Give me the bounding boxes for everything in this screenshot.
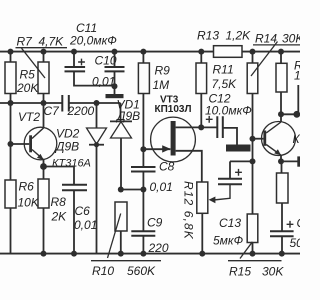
junction: rail / C11 xyxy=(71,49,77,55)
svg-text:C10: C10 xyxy=(95,54,117,68)
wire: R11 top lead xyxy=(200,52,202,63)
wire: VT3 drain lead xyxy=(176,126,202,128)
wire: VD1 anode down to R10 node xyxy=(120,138,122,190)
svg-text:КТ316А: КТ316А xyxy=(52,158,91,170)
wire: C12 to chassis bar xyxy=(223,128,237,145)
plus sign C12 xyxy=(206,116,213,123)
transistor VT2 KT316A xyxy=(11,127,57,160)
svg-text:R11: R11 xyxy=(213,63,234,77)
svg-text:2K: 2K xyxy=(51,210,68,224)
wire: R17 bottom lead xyxy=(281,203,283,231)
wire: R11 bottom lead xyxy=(200,94,202,128)
wire: VT3 source to R12 xyxy=(176,151,202,182)
wire: R12 wiper to C13 with arrow xyxy=(209,184,230,203)
capacitor C14 (electrolytic) xyxy=(270,231,294,236)
junction: R15 / common rail xyxy=(250,251,256,257)
svg-text:0,01: 0,01 xyxy=(150,180,173,194)
wire: emitter node to C6 xyxy=(44,166,75,168)
junction: rail / R14 xyxy=(250,49,256,55)
wire: drain to C12 xyxy=(201,126,217,128)
plus sign C14 xyxy=(287,221,294,228)
junction: collector node xyxy=(278,111,284,117)
wire: C14 bottom lead xyxy=(281,236,283,253)
wire: C8 bottom lead xyxy=(142,172,144,190)
resistor R5 xyxy=(5,62,16,94)
ground: chassis bar fragment at right edge xyxy=(297,156,300,166)
wire: R12 bottom lead xyxy=(201,213,203,253)
svg-text:50: 50 xyxy=(290,236,301,250)
plus sign C13 xyxy=(235,169,242,176)
svg-text:R7: R7 xyxy=(17,35,34,49)
wire: R7 bottom lead xyxy=(43,94,45,104)
junction: rail / R16 xyxy=(278,49,284,55)
wire: C9 top lead xyxy=(142,190,144,232)
junction: C10 / C11 node xyxy=(112,83,118,89)
junction: emitter node xyxy=(278,158,284,164)
svg-text:C8: C8 xyxy=(159,160,175,174)
diode VD2 D9V xyxy=(87,128,107,145)
wire: C13 top lead xyxy=(229,161,231,178)
wire: C6 bottom lead xyxy=(73,190,75,253)
junction: VT4 base tap xyxy=(250,136,256,142)
resistor R17 xyxy=(277,173,289,203)
wire: left vertical to VT2 base node xyxy=(10,103,12,144)
ground: chassis bar under C10 xyxy=(106,94,124,98)
wire: stub to chassis bar xyxy=(114,86,116,94)
svg-text:R5: R5 xyxy=(20,68,36,82)
junction: C13 tap xyxy=(250,158,256,164)
svg-text:15: 15 xyxy=(294,69,300,83)
wire: C13 to R14/R15 line xyxy=(230,160,253,162)
resistor R13 (in series with rail) xyxy=(214,46,243,58)
wire: C10 top lead xyxy=(114,52,116,67)
svg-text:R15: R15 xyxy=(229,265,251,279)
junction: R8 / common rail xyxy=(41,251,47,257)
svg-text:R14: R14 xyxy=(255,32,277,46)
junction: R10 / common rail xyxy=(118,251,124,257)
junction: R12 / common rail xyxy=(199,251,205,257)
resistor R6 xyxy=(5,180,16,208)
wire: VT4 collector lead xyxy=(280,114,282,122)
resistor R7 (trimmer) xyxy=(38,62,49,94)
svg-text:КП103Л: КП103Л xyxy=(155,104,192,115)
svg-text:20K: 20K xyxy=(16,81,39,95)
wire: R5 top lead xyxy=(10,52,12,62)
wire: top supply rail (right segment) xyxy=(242,51,300,53)
svg-text:4,7K: 4,7K xyxy=(39,35,65,49)
wire: R5 bottom lead xyxy=(10,94,12,104)
label R15 30K (overlined trimmer label) xyxy=(228,261,284,279)
junction: rail / R5 xyxy=(8,49,14,55)
svg-text:7,5K: 7,5K xyxy=(212,77,238,91)
svg-text:R6: R6 xyxy=(19,180,35,194)
junction: input line / diodes xyxy=(94,100,100,106)
svg-text:R13: R13 xyxy=(197,29,219,43)
capacitor C9 xyxy=(131,231,155,235)
wire: R9 top lead xyxy=(142,52,144,63)
wire: R16 top lead xyxy=(280,52,282,64)
wire: VT4 emitter lead xyxy=(280,155,282,161)
wire: C6 top lead xyxy=(73,167,75,185)
capacitor C13 (electrolytic) xyxy=(218,179,242,185)
svg-text:560K: 560K xyxy=(127,264,156,278)
wire: R10 trimmer pointer line xyxy=(108,214,121,259)
plus sign C11 xyxy=(78,59,85,66)
junction: C9 / common rail xyxy=(140,251,146,257)
resistor R11 xyxy=(196,63,207,94)
wire: collector node to right edge xyxy=(281,113,300,115)
wire: gate lead to VT3 xyxy=(143,148,170,150)
transistor VT4 xyxy=(253,122,296,156)
resistor R12 (trimmer) xyxy=(197,182,208,213)
junction: C6 / common rail xyxy=(71,251,77,257)
svg-text:10K: 10K xyxy=(18,196,40,210)
svg-text:R10: R10 xyxy=(92,264,114,278)
wire: VT2 emitter lead xyxy=(43,160,45,167)
svg-text:VD2: VD2 xyxy=(56,127,80,141)
diode VD1 D9V xyxy=(110,121,132,138)
wire: down to R6 xyxy=(10,144,12,180)
wire: R10 to C9 node xyxy=(121,189,144,191)
svg-text:1,2K: 1,2K xyxy=(226,29,252,43)
resistor R15 (trimmer) xyxy=(247,214,258,243)
junction: drain node xyxy=(198,124,204,130)
wire: R16 bottom lead xyxy=(280,92,282,114)
wire: R15 bottom lead xyxy=(252,243,254,254)
junction: VD2 cathode xyxy=(94,142,99,147)
svg-text:1M: 1M xyxy=(153,78,170,92)
resistor R16 xyxy=(276,63,287,92)
svg-text:30K: 30K xyxy=(282,32,300,46)
capacitor C7 xyxy=(62,95,69,112)
wire: input line y103 (right of C7) xyxy=(69,102,121,104)
wire: VD2 cathode to common rail xyxy=(96,145,98,254)
svg-text:C13: C13 xyxy=(219,216,241,230)
wire: R7 trimmer pointer line xyxy=(22,48,46,78)
junction: C8 / C9 node xyxy=(140,187,146,193)
capacitor C10 xyxy=(105,67,125,71)
capacitor C8 xyxy=(131,167,156,172)
wire: down to VD2 xyxy=(96,103,98,128)
svg-text:Д9В: Д9В xyxy=(115,109,140,123)
junction: right edge tap xyxy=(293,111,300,118)
wire: bottom common rail xyxy=(0,253,300,255)
capacitor C12 (electrolytic) xyxy=(217,116,223,138)
junction: rail / R9 xyxy=(140,49,146,55)
resistor R9 xyxy=(138,63,149,94)
wire: C11 top lead xyxy=(73,52,75,67)
svg-text:10.0мкФ: 10.0мкФ xyxy=(205,104,252,118)
junction: rail / R11 xyxy=(198,49,204,55)
wire: R9 bottom to gate node xyxy=(142,94,144,150)
svg-text:0,01: 0,01 xyxy=(74,218,97,232)
label R14 30K (underlined trimmer label) xyxy=(253,32,304,46)
junction: rail / R7 xyxy=(41,49,47,55)
ground: chassis bar right of C12 xyxy=(226,145,251,152)
wire: down to VD1 xyxy=(120,103,122,121)
svg-text:220: 220 xyxy=(148,241,169,255)
wire: R14 top lead xyxy=(252,52,254,63)
wire: C11 bottom to C10 node xyxy=(74,71,115,85)
svg-text:C9: C9 xyxy=(147,216,163,230)
resistor R14 (trimmer) xyxy=(247,63,258,94)
svg-text:R8: R8 xyxy=(51,195,67,209)
wire: R15 trimmer pointer line xyxy=(240,242,252,259)
junction: VD1 / R10 top xyxy=(118,187,124,193)
junction: base node xyxy=(8,141,14,147)
svg-text:С: С xyxy=(297,216,301,230)
wire: C9 bottom lead xyxy=(142,236,144,254)
svg-text:2200: 2200 xyxy=(67,104,95,118)
junction: gate node xyxy=(140,146,146,152)
svg-text:К: К xyxy=(293,132,301,146)
svg-text:20,0мкФ: 20,0мкФ xyxy=(69,34,117,48)
svg-text:R9: R9 xyxy=(155,64,171,78)
svg-text:5мкФ: 5мкФ xyxy=(213,234,244,248)
svg-text:C7: C7 xyxy=(44,104,61,118)
wire: C10 bottom lead xyxy=(114,71,116,86)
junction: R5 / input wire xyxy=(8,100,14,106)
junction: R7 / VT2 collector xyxy=(41,100,47,106)
wire: R14 trimmer pointer line xyxy=(251,42,278,77)
svg-text:30K: 30K xyxy=(262,265,284,279)
wire: R14 bottom down to R15 xyxy=(252,94,254,215)
capacitor C11 (electrolytic) xyxy=(65,67,86,71)
svg-text:R12 6,8K: R12 6,8K xyxy=(182,181,196,240)
svg-text:VT2: VT2 xyxy=(18,110,40,124)
junction: C14 / common rail xyxy=(279,251,285,257)
wire: input line y103 (left of C7) xyxy=(0,102,62,104)
svg-text:C6: C6 xyxy=(75,204,91,218)
junction: rail / C10 xyxy=(112,49,118,55)
wire: R10 bottom lead xyxy=(120,231,122,254)
label R10 560K (overlined trimmer label) xyxy=(91,261,161,278)
svg-text:Д9В: Д9В xyxy=(54,140,79,154)
transistor VT3 KP103L (p-channel JFET) xyxy=(151,117,196,162)
wire: top supply rail (left segment) xyxy=(0,51,214,53)
resistor R8 xyxy=(38,179,49,208)
wire: emitter to R17 xyxy=(281,161,283,173)
wire: R8 bottom lead xyxy=(43,208,45,254)
junction: emitter node xyxy=(40,163,47,170)
capacitor C6 xyxy=(62,185,87,191)
resistor R10 (trimmer) xyxy=(115,202,127,231)
wire: C8 top lead xyxy=(142,149,144,167)
label R7 4,7K (underlined trimmer label) xyxy=(16,35,68,49)
wire: to R8 xyxy=(43,167,45,180)
wire: R7 top lead xyxy=(43,52,45,62)
wire: R6 bottom lead to common rail xyxy=(10,208,12,254)
wire: VT2 collector lead xyxy=(43,103,45,128)
wire: feeder from top right edge xyxy=(297,85,299,114)
wire: emitter node to right edge xyxy=(281,160,300,162)
